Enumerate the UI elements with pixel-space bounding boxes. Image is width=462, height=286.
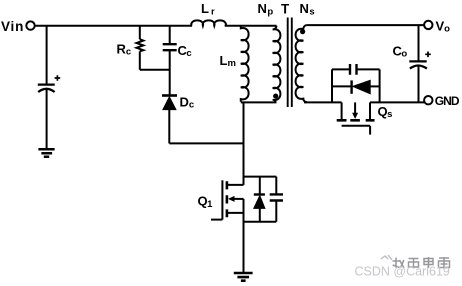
- watermark logo squiggle: [381, 255, 392, 260]
- terminal GND: [424, 96, 432, 104]
- wire drain node vertical: [243, 102, 245, 184]
- wire Dc to bottom: [168, 110, 170, 144]
- ground Q1: [234, 273, 253, 281]
- inductor Lm: [241, 26, 249, 102]
- capacitor Qs rung wires: [332, 68, 380, 70]
- terminal Vo: [424, 21, 432, 29]
- mosfet Qs channel bars: [337, 119, 375, 122]
- inductor Lr: [191, 20, 226, 26]
- terminal Vin: [26, 21, 34, 29]
- svg-text:Vin: Vin: [1, 19, 24, 34]
- diode Dc: [162, 94, 177, 97]
- resistor Rc: [137, 39, 144, 51]
- wire Cc to Dc: [169, 50, 171, 95]
- capacitor Cin curved plate: [38, 89, 54, 92]
- watermark glyph 2: [409, 258, 419, 268]
- wire Rc-Cc bottom joining: [140, 69, 170, 71]
- capacitor Cc: [163, 44, 177, 50]
- capacitor Cin top plate: [38, 83, 55, 85]
- mosfet Q1 gate plate: [221, 180, 223, 219]
- wire cap to ground: [46, 90, 48, 149]
- svg-text:Lr: Lr: [201, 1, 215, 17]
- watermark glyph 4: [439, 257, 450, 268]
- wire Q1 source down: [243, 199, 245, 272]
- transformer core: [288, 18, 292, 108]
- capacitor Co branch top: [418, 25, 420, 61]
- wire Q1 snubber top: [244, 176, 277, 178]
- mosfet Q1 gate lead: [211, 219, 222, 221]
- mosfet Q1 source stub: [227, 212, 244, 214]
- svg-text:Rc: Rc: [117, 42, 132, 58]
- diode Q1 branch bottom: [259, 208, 261, 221]
- diode Qs triangle: [353, 80, 370, 94]
- capacitor Co top plate: [409, 60, 426, 62]
- capacitor Co plus: [425, 52, 431, 58]
- capacitor Q1 branch bottom: [275, 201, 277, 222]
- mosfet Q1 channel bars: [226, 181, 229, 217]
- mosfet Qs left stub: [341, 102, 343, 119]
- mosfet Qs gate plate: [342, 125, 371, 127]
- wire primary bottom: [241, 101, 277, 103]
- wire top rail left: [35, 25, 192, 27]
- capacitor Co curved plate: [410, 66, 427, 69]
- transformer winding Np: [273, 26, 281, 103]
- capacitor Q1 plates: [270, 194, 283, 200]
- capacitor Cin plus sign: [55, 75, 61, 81]
- svg-text:Ns: Ns: [300, 1, 315, 17]
- diode Q1 triangle: [254, 196, 265, 209]
- mosfet Qs gate lead: [369, 126, 371, 135]
- diode Qs cathode bar: [350, 80, 352, 93]
- wire Cc branch top: [169, 26, 171, 44]
- mosfet Q1 drain stub: [227, 184, 244, 186]
- svg-text:T: T: [281, 1, 290, 16]
- svg-text:CSDN @Carl619: CSDN @Carl619: [355, 265, 450, 279]
- mosfet Qs ladder right vertical: [379, 69, 381, 102]
- svg-text:Np: Np: [258, 1, 274, 17]
- diode Q1 cathode bar: [254, 193, 265, 195]
- wire secondary bottom left: [304, 101, 342, 103]
- capacitor Qs plates: [350, 64, 357, 75]
- wire Dc to drain node: [169, 142, 243, 144]
- mosfet Qs ladder left vertical: [331, 69, 333, 102]
- svg-text:Lm: Lm: [220, 53, 236, 69]
- diode Q1 body branch top: [259, 177, 261, 195]
- watermark glyph 3: [424, 257, 433, 268]
- diode Qs rung left wire: [332, 85, 352, 87]
- transformer winding Ns: [296, 25, 307, 102]
- svg-text:Vo: Vo: [436, 18, 451, 34]
- wire top rail right of Lr: [225, 25, 277, 27]
- wire input cap branch: [46, 26, 48, 85]
- wire secondary bottom right: [370, 101, 424, 103]
- mosfet Q1 body arrow: [234, 198, 244, 200]
- svg-text:GND: GND: [435, 94, 460, 108]
- ground input: [38, 149, 54, 156]
- watermark glyph 1: [393, 258, 405, 269]
- svg-text:Cc: Cc: [178, 43, 192, 59]
- wire secondary top: [307, 24, 424, 26]
- polarity dot Ns: [300, 29, 305, 34]
- svg-text:Qs: Qs: [378, 104, 393, 120]
- wire Co bottom: [418, 66, 420, 102]
- svg-text:Dc: Dc: [180, 94, 195, 110]
- polarity dot Np: [273, 94, 278, 99]
- mosfet Qs right stub: [369, 102, 371, 119]
- diode Qs rung right wire: [370, 85, 379, 87]
- wire Rc branch top: [139, 26, 141, 40]
- mosfet Qs body arrow: [354, 102, 356, 113]
- capacitor Q1 branch top: [275, 177, 277, 195]
- svg-text:Co: Co: [393, 44, 408, 60]
- svg-text:Q1: Q1: [198, 194, 214, 210]
- wire Q1 snubber bottom: [244, 221, 277, 223]
- wire Rc bottom: [139, 51, 141, 70]
